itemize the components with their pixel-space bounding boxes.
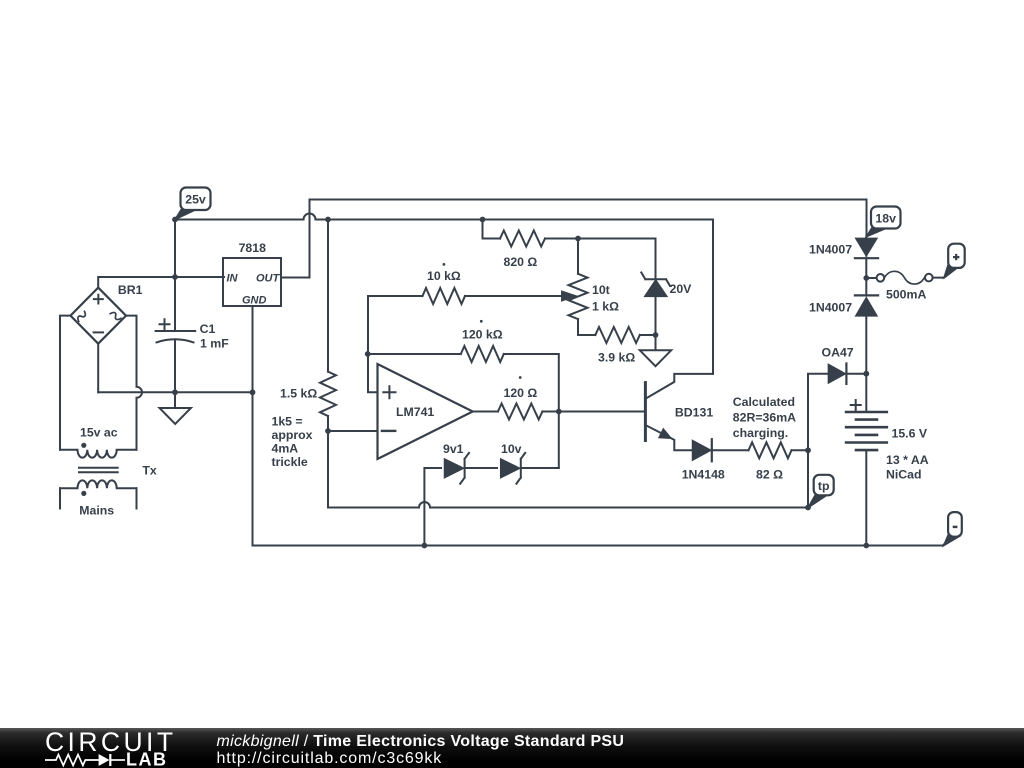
- wire 120k right to output riser: [504, 354, 559, 412]
- wire zener branch bottom left corner: [424, 468, 441, 546]
- svg-text:18v: 18v: [875, 211, 896, 225]
- wire node L down and right to tp node with hop: [328, 431, 808, 508]
- svg-text:1k5 =: 1k5 =: [272, 415, 303, 429]
- svg-text:1 kΩ: 1 kΩ: [592, 300, 619, 314]
- ground symbol under 20V zener: [640, 335, 671, 366]
- svg-text:Mains: Mains: [79, 504, 114, 518]
- transformer primary stubs: [60, 488, 137, 508]
- wire zener 20V bottom to node H: [655, 296, 657, 335]
- wire bottom rail bend to minus terminal: [943, 537, 952, 546]
- wire 1.5k bottom to node L: [327, 416, 329, 431]
- transformer Tx primary coil: [60, 480, 137, 488]
- wire fuse right to plus terminal: [933, 269, 956, 278]
- svg-text:approx: approx: [272, 428, 313, 442]
- svg-text:82 Ω: 82 Ω: [756, 468, 783, 482]
- regulator 7818 box: [223, 258, 281, 306]
- diode OA47: [828, 364, 846, 384]
- svg-text:tp: tp: [818, 479, 830, 493]
- wire C1 bottom to ground rail: [174, 340, 176, 393]
- wire 25v node right to collector riser with hop over x=309.5: [175, 214, 713, 220]
- wire battery bottom to rail: [865, 450, 867, 545]
- wire 1.5k top lead from node C: [327, 220, 329, 372]
- resistor 120R zigzag: [498, 404, 543, 420]
- svg-text:10v: 10v: [501, 442, 522, 456]
- diode 1N4007 bottom: [855, 295, 878, 316]
- resistor 10k zigzag: [423, 288, 466, 304]
- wire 7818 OUT up and right to 18v rail: [281, 200, 867, 278]
- wire node L to opamp minus input: [328, 430, 378, 432]
- svg-text:10t: 10t: [592, 283, 610, 297]
- svg-text:20V: 20V: [670, 282, 693, 296]
- svg-text:Tx: Tx: [142, 464, 157, 478]
- footer credit line: [217, 733, 625, 767]
- potentiometer zigzag: [569, 274, 588, 319]
- wire BR1 bottom vertex to rail: [97, 344, 99, 393]
- wire pot top lead: [577, 239, 579, 274]
- ground symbol under C1: [160, 392, 191, 424]
- svg-text:120 kΩ: 120 kΩ: [462, 328, 503, 342]
- CircuitLab logo: [40, 728, 240, 768]
- capacitor C1: [156, 331, 196, 342]
- transformer polarity dots: [81, 443, 86, 448]
- resistor 3.9k zigzag: [595, 327, 640, 343]
- BR1 plus mark: [94, 295, 103, 304]
- svg-text:1N4148: 1N4148: [682, 468, 725, 482]
- wire 82R to node J: [792, 449, 809, 451]
- terminal flag minus: [944, 512, 962, 546]
- flag 18v: [866, 207, 900, 237]
- transformer Tx secondary coil: [60, 450, 137, 458]
- resistor 82R zigzag: [749, 442, 792, 458]
- transistor Q BD131: [645, 383, 671, 441]
- opamp minus input mark: [382, 430, 395, 432]
- wire fuse tap: [866, 277, 876, 279]
- wire opamp output to 120R: [473, 411, 498, 413]
- wire 1N4148 to 82R: [712, 449, 749, 451]
- wire BR1 left vertex down to transformer: [60, 316, 71, 450]
- resistor 120k zigzag: [461, 346, 504, 362]
- svg-text:7818: 7818: [239, 241, 267, 255]
- diode 1N4007 top: [855, 238, 878, 258]
- wire ground rail: [98, 391, 252, 393]
- BR1 minus mark: [94, 331, 103, 333]
- wire 120k left lead: [368, 353, 461, 355]
- svg-text:C1: C1: [200, 322, 216, 336]
- flag 25v: [175, 188, 211, 220]
- svg-text:82R=36mA: 82R=36mA: [733, 410, 796, 424]
- wire collector riser: [712, 220, 714, 374]
- wire 3.9k to node H: [640, 334, 656, 336]
- terminal flag plus: [944, 244, 965, 278]
- wire node B down to C1: [174, 277, 176, 331]
- svg-text:15.6 V: 15.6 V: [892, 427, 928, 441]
- wire ground rail down to bottom rail: [253, 392, 943, 545]
- svg-text:820 Ω: 820 Ω: [504, 255, 538, 269]
- svg-text:4mA: 4mA: [272, 441, 299, 455]
- svg-text:25v: 25v: [185, 193, 206, 207]
- BR1 ac mark left: [76, 311, 87, 321]
- flag tp: [808, 475, 834, 508]
- wire BD131 collector lead: [646, 374, 713, 398]
- battery BT 15.6V plates: [846, 400, 887, 450]
- svg-text:GND: GND: [242, 295, 267, 307]
- wire zener branch riser x=558.8: [558, 412, 560, 469]
- svg-text:13 * AA: 13 * AA: [886, 453, 929, 467]
- svg-text:10 kΩ: 10 kΩ: [427, 269, 461, 283]
- wire 10k right lead to pot wiper: [465, 295, 562, 297]
- svg-text:120 Ω: 120 Ω: [504, 386, 538, 400]
- wire BR1 right vertex down to transformer with hop over ground rail: [126, 316, 142, 450]
- svg-text:LM741: LM741: [396, 405, 434, 419]
- wire 18v rail through diodes to battery: [865, 237, 867, 413]
- diode 1N4148: [693, 439, 712, 461]
- svg-text:3.9 kΩ: 3.9 kΩ: [598, 350, 635, 364]
- resistor 1.5k zigzag: [320, 372, 336, 416]
- resistor R 820 leads: [483, 220, 579, 239]
- BR1 ac mark right: [110, 311, 121, 321]
- zener D 20V: [641, 273, 670, 297]
- wire OA47 anode riser: [808, 374, 828, 508]
- svg-text:1N4007: 1N4007: [809, 301, 852, 315]
- fuse F 500mA: [877, 271, 933, 284]
- svg-text:OA47: OA47: [822, 346, 854, 360]
- op-amp U1 LM741: [378, 364, 473, 459]
- wire between 9v1 and 10v zeners: [466, 467, 497, 469]
- battery plus mark: [851, 400, 861, 410]
- wire pot bottom to 3.9k: [578, 319, 595, 335]
- svg-text:trickle: trickle: [272, 455, 308, 469]
- svg-text:9v1: 9v1: [443, 442, 464, 456]
- svg-text:LAB: LAB: [126, 750, 168, 768]
- svg-text:1N4007: 1N4007: [809, 243, 852, 257]
- wire 120R to BD131 base: [542, 411, 644, 413]
- bridge rectifier BR1: [71, 288, 127, 344]
- resistor 820 zigzag: [500, 231, 545, 247]
- wire 820 node to zener 20V top: [578, 239, 656, 280]
- wire BD131 emitter lead: [646, 426, 692, 451]
- opamp plus input mark: [383, 386, 395, 398]
- svg-text:500mA: 500mA: [886, 288, 926, 302]
- svg-text:charging.: charging.: [733, 426, 788, 440]
- C1 plus mark: [160, 319, 170, 329]
- zener D 9v1: [445, 453, 470, 484]
- potentiometer wiper arrow: [548, 291, 576, 300]
- svg-text:BR1: BR1: [118, 283, 143, 297]
- svg-text:15v ac: 15v ac: [80, 426, 118, 440]
- footer bar: [0, 728, 1024, 768]
- wire 25v node down to IN rail: [174, 220, 176, 278]
- svg-text:NiCad: NiCad: [886, 468, 922, 482]
- wire 7818 GND down: [252, 306, 254, 392]
- svg-text:1 mF: 1 mF: [200, 336, 229, 350]
- svg-text:1.5 kΩ: 1.5 kΩ: [280, 387, 317, 401]
- svg-text:IN: IN: [227, 273, 239, 285]
- zener D 10v: [501, 453, 526, 484]
- wire BR1 top to 7818 IN: [98, 277, 224, 288]
- svg-text:Calculated: Calculated: [733, 395, 795, 409]
- wire 10v zener to riser: [522, 467, 559, 469]
- svg-text:OUT: OUT: [256, 273, 281, 285]
- svg-text:BD131: BD131: [675, 406, 713, 420]
- transformer core: [79, 468, 118, 473]
- wire OA47 cathode to battery rail: [847, 373, 867, 375]
- wire 10k left lead from +input riser: [368, 296, 423, 392]
